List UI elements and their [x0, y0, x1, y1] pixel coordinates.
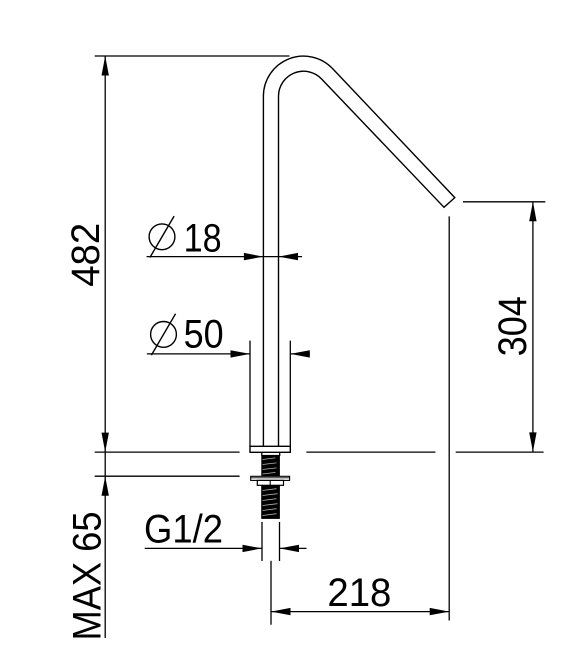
svg-text:482: 482 [64, 223, 108, 287]
dimension Ø18: diameter symbol slash [150, 216, 174, 257]
dimension MAX 65: arrow [102, 476, 109, 496]
dimension G1/2: right extension line [279, 522, 281, 561]
dimension Ø50: diameter symbol circle [151, 322, 177, 348]
dimension 304: bottom arrow [529, 432, 536, 452]
dimension Ø18: diameter symbol circle [149, 224, 175, 250]
thread upper section [261, 455, 280, 476]
dimension Ø18: leader line [147, 256, 302, 258]
svg-text:18: 18 [184, 217, 222, 261]
thread lower section [261, 485, 280, 519]
svg-text:G1/2: G1/2 [144, 507, 223, 551]
deck top line (left / middle / right segments) [95, 451, 544, 453]
dimension G1/2: leader line [145, 547, 262, 549]
dimension G1/2: left extension line [261, 522, 263, 561]
dimension 218: left arrow [271, 608, 291, 615]
dimension Ø50: right extension line [289, 341, 291, 447]
dimension 482: dimension line [104, 56, 106, 452]
dimension Ø50: right arrow [290, 350, 310, 357]
dimension G1/2: left arrow [243, 545, 263, 552]
svg-text:218: 218 [327, 571, 391, 615]
dimension G1/2: right tail line [280, 547, 307, 549]
top extension line (spout top level) [95, 55, 290, 57]
dimension 218: dimension line [271, 611, 449, 613]
base flange [250, 446, 290, 452]
thread neck walls [262, 452, 280, 456]
dimension Ø50: diameter symbol slash [151, 314, 175, 355]
svg-text:MAX 65: MAX 65 [65, 512, 109, 641]
dimension 482: bottom arrow [102, 433, 109, 453]
dimension 482: top arrow [102, 56, 109, 76]
mounting nut [257, 480, 283, 485]
dimension 304: top extension line [463, 201, 545, 203]
dimension Ø50: left extension line [249, 341, 251, 447]
deck bottom line [95, 475, 240, 477]
svg-text:304: 304 [491, 296, 535, 356]
faucet spout tube [263, 56, 454, 446]
svg-text:50: 50 [184, 313, 224, 357]
dimension 218: right arrow [430, 608, 450, 615]
dimension G1/2: right arrow [280, 545, 300, 552]
dimension 218: extension line from spout outlet [448, 216, 450, 620]
dimension 218: extension line from faucet axis [270, 561, 272, 625]
dimension Ø18: right arrow [279, 253, 299, 260]
dimension Ø50: right tail line [290, 353, 310, 355]
dimension Ø50: left arrow [231, 350, 251, 357]
dimension MAX 65: dimension line [104, 452, 106, 638]
dimension 304: dimension line [532, 202, 534, 452]
dimension 304: top arrow [529, 202, 536, 222]
washer [251, 476, 290, 480]
dimension Ø18: left arrow [244, 253, 264, 260]
dimension Ø50: leader line [147, 353, 250, 355]
